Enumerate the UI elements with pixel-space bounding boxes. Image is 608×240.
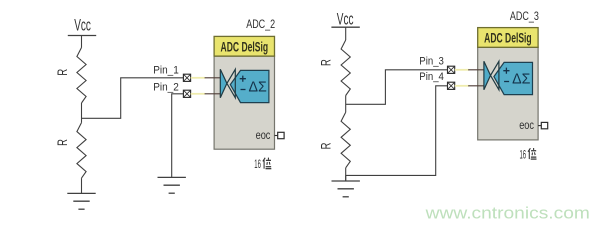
input buffer/mux bowtie in ADC_2 [220,69,227,98]
svg-text:Vcc: Vcc [74,17,91,35]
eoc output terminal of ADC_3 [538,125,541,127]
plus input marker in ADC_3 [503,68,509,74]
ADC block ADC_3 body [478,47,538,140]
wire node to Pin_1 terminal [82,78,184,119]
power symbol Vcc (right) [331,11,359,29]
resistor R1 (left upper) [54,48,86,104]
wire Vcc to R1 (right) [345,27,347,40]
wire Pin_2 terminal to ground riser [172,94,184,178]
analog wire Pin_3 to ADC_3 (pale) [455,69,470,71]
wire (internal) input 2 into ADC_3 [468,85,484,87]
wire (internal) input 2 into ADC_2 [205,93,221,95]
svg-text:Pin_2: Pin_2 [153,81,179,93]
ADC block ADC_2 body [214,56,274,149]
svg-text:www.cntronics.com: www.cntronics.com [425,204,590,222]
resistor R2 (right lower) [318,112,351,168]
delta-sigma modulator symbol in ADC_3 [494,62,533,94]
svg-text:ADC DelSig: ADC DelSig [221,39,269,54]
terminal Pin_4 [448,82,455,89]
wire R1 to node (right divider) [345,96,347,113]
ADC block ADC_2 header "ADC DelSig" [214,36,274,56]
power symbol Vcc (left) [68,17,96,36]
wire R2 to ground (right) [345,168,347,181]
svg-text:R: R [318,59,335,66]
ground (right divider) [332,181,360,197]
svg-text:eoc: eoc [256,128,271,142]
svg-text:ADC DelSig: ADC DelSig [484,31,532,46]
delta-sigma modulator symbol in ADC_2 [230,70,269,102]
minus input marker in ADC_3 [504,81,509,83]
svg-text:ΔΣ: ΔΣ [249,79,267,96]
svg-text:R: R [318,142,335,149]
svg-text:ADC_2: ADC_2 [246,17,275,31]
wire R1 to node (left divider) [81,103,83,123]
svg-text:eoc: eoc [519,118,534,132]
svg-text:R: R [54,139,71,146]
wire Pin_4 terminal to bottom node [346,86,448,176]
resistor R1 (right upper) [318,40,351,96]
minus input marker in ADC_2 [241,89,246,91]
wire (internal) input 1 into ADC_3 [468,69,484,71]
svg-text:16: 16 [254,157,261,171]
ground (under Pin_2 wire) [158,177,186,193]
svg-text:R: R [54,69,71,76]
ADC block ADC_3 header "ADC DelSig" [478,28,538,48]
analog wire Pin_2 to ADC_2 (pale) [191,93,206,95]
wire node to Pin_3 terminal [346,70,448,105]
eoc output terminal of ADC_2 [275,135,278,137]
analog wire Pin_1 to ADC_2 (pale) [191,77,206,79]
svg-text:ADC_3: ADC_3 [510,9,539,23]
terminal Pin_1 [183,74,190,81]
svg-text:ΔΣ: ΔΣ [512,71,530,88]
svg-text:16: 16 [520,147,527,161]
terminal Pin_3 [448,66,455,73]
ground (left divider) [67,193,95,209]
wire R2 to ground (left) [81,178,83,193]
svg-text:Pin_1: Pin_1 [153,64,179,76]
analog wire Pin_4 to ADC_3 (pale) [455,85,470,87]
wire (internal) input 1 into ADC_2 [205,77,221,79]
svg-text:Pin_4: Pin_4 [419,71,444,83]
svg-text:Pin_3: Pin_3 [419,56,444,68]
wire Vcc to R1 (left) [81,36,83,48]
svg-text:Vcc: Vcc [337,11,354,29]
terminal Pin_2 [183,90,190,97]
wire bottom node to ground lead (right) [345,175,347,181]
plus input marker in ADC_2 [240,76,246,82]
resistor R2 (left lower) [54,123,86,179]
input buffer/mux bowtie in ADC_3 [484,61,491,90]
